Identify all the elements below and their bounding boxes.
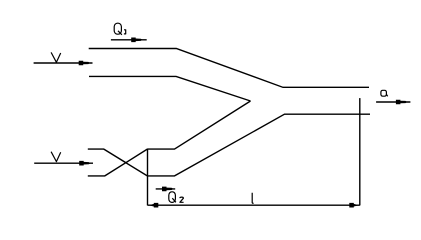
wire right extension line [359,98,361,205]
wire upper-channel top wall [89,49,369,88]
label a [381,90,387,96]
wire left extension line [147,149,149,206]
wire lower-channel bottom wall [147,114,370,176]
wire Q2 flow arrow line [156,188,176,190]
label l dimension [252,193,253,204]
wire nozzle lower converging line [88,149,148,176]
node dimension arrowhead left [149,203,159,208]
label Q1 subscript 1 [124,30,126,34]
node arrowhead V top [79,61,90,66]
wire lower-channel top wall [147,101,250,149]
wire a outlet arrow line [376,101,410,103]
label Q2 subscript 2 [180,197,184,202]
label Q2 letter Q [169,192,176,203]
wire velocity arrow line top [34,62,93,64]
wire dimension line l [148,204,360,206]
label Q1 letter Q [114,23,121,34]
node arrowhead a [396,100,407,105]
wire Q1 flow arrow line [111,39,147,41]
label V bottom [51,152,61,162]
node arrowhead Q1 [131,38,142,43]
node dimension arrowhead right [349,203,359,208]
label V top [51,52,61,62]
wire velocity arrow line bottom [34,162,93,164]
wire nozzle upper converging line [88,149,148,176]
node arrowhead Q2 [162,187,173,192]
wire upper-channel bottom wall [89,76,251,101]
node arrowhead V bottom [79,161,90,166]
